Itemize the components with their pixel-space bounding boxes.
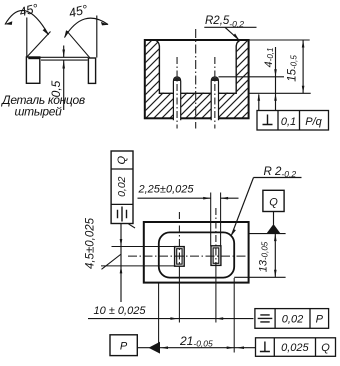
arc right 45 bbox=[64, 18, 108, 38]
chamfer depth line top bbox=[40, 56, 88, 58]
centerline pin left (plan) bbox=[178, 212, 180, 267]
centerline horizontal (plan) bbox=[128, 255, 252, 257]
svg-text:0,1: 0,1 bbox=[281, 116, 296, 128]
pin left (section) bbox=[173, 77, 180, 120]
svg-text:P/q: P/q bbox=[305, 116, 322, 128]
datum Q (plan right) bbox=[263, 190, 284, 233]
13 top extension line bbox=[249, 233, 286, 235]
svg-text:45°: 45° bbox=[18, 1, 40, 19]
datum frame perpendicular 0,025 Q bbox=[256, 338, 336, 357]
svg-text:10 ± 0,025: 10 ± 0,025 bbox=[94, 305, 147, 317]
extension line right 45 bbox=[96, 16, 98, 58]
datum frame symmetry 0,02 Q (left, vertical) bbox=[111, 151, 135, 228]
pin right (plan) bbox=[211, 246, 221, 266]
svg-text:Q: Q bbox=[321, 342, 330, 354]
datum P bbox=[110, 335, 160, 356]
line A pin tops extension bbox=[219, 76, 285, 78]
svg-text:0,025: 0,025 bbox=[281, 342, 309, 354]
svg-text:Q: Q bbox=[116, 155, 128, 164]
chamfer line left 45 bbox=[27, 32, 51, 58]
datum frame symmetry 0,02 P bbox=[255, 309, 329, 329]
extension pin right center bbox=[215, 267, 217, 323]
svg-text:4-0,1: 4-0,1 bbox=[263, 48, 275, 68]
svg-text:штырей: штырей bbox=[14, 105, 62, 119]
extension pin left center bbox=[178, 267, 180, 323]
hatch bottom slab bbox=[146, 93, 248, 118]
centerline pin right (plan) bbox=[215, 208, 217, 267]
svg-text:45°: 45° bbox=[67, 2, 89, 20]
pin left (plan) bbox=[175, 247, 185, 267]
svg-text:P: P bbox=[316, 314, 324, 326]
centerline pin right (section) bbox=[214, 57, 216, 129]
svg-text:0,02: 0,02 bbox=[282, 314, 303, 326]
plan cavity rounded rect bbox=[159, 232, 234, 277]
svg-text:0,02: 0,02 bbox=[116, 176, 128, 197]
svg-text:4,5±0,025: 4,5±0,025 bbox=[85, 217, 97, 269]
dimension 21-0,05 bbox=[137, 278, 255, 353]
dimension 2,25±0,025 bbox=[138, 184, 239, 247]
line B cavity bottom extension bbox=[249, 92, 311, 94]
chamfer line right 45 bbox=[67, 31, 90, 58]
svg-text:13-0,05: 13-0,05 bbox=[257, 241, 269, 272]
plan outer rect bbox=[144, 222, 249, 283]
dimension 13-0,05 bbox=[257, 234, 276, 278]
dimension 4,5±0,025 bbox=[85, 217, 175, 302]
chamfer depth line bottom bbox=[41, 59, 88, 61]
centerline pin left (section) bbox=[176, 57, 178, 129]
dimension 0,5 bbox=[49, 46, 65, 111]
dimension 15-0,5 bbox=[287, 40, 305, 93]
svg-text:2,25±0,025: 2,25±0,025 bbox=[138, 184, 195, 196]
leader R2,5-0,2 bbox=[204, 15, 256, 40]
body outline bbox=[145, 40, 249, 118]
cavity outline bbox=[156, 40, 240, 93]
svg-text:Q: Q bbox=[269, 197, 278, 209]
hatch left wall bbox=[146, 41, 160, 93]
13 bottom extension line bbox=[234, 276, 285, 278]
dimension 4-0,1 bbox=[263, 47, 277, 111]
leader R 2-0,2 bbox=[231, 166, 302, 236]
dimension 10 ± 0,025 bbox=[88, 305, 254, 320]
pin left (detail) bbox=[26, 57, 40, 84]
extension line left 45 bbox=[26, 18, 28, 57]
svg-text:21-0,05: 21-0,05 bbox=[179, 334, 213, 349]
arc left 45 bbox=[5, 10, 49, 35]
centerline main (section) bbox=[195, 29, 197, 129]
datum frame perpendicular 0,1 P/q bbox=[257, 93, 329, 130]
svg-text:15-0,5: 15-0,5 bbox=[287, 55, 299, 82]
top edge extension bbox=[249, 39, 310, 41]
svg-text:P: P bbox=[120, 341, 128, 353]
hatch right wall bbox=[236, 41, 248, 93]
pin right (detail) bbox=[88, 58, 95, 83]
pin right (section) bbox=[211, 77, 218, 120]
